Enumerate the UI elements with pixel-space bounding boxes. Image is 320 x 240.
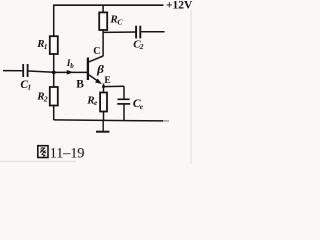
resistor RC <box>99 12 107 30</box>
wire C1 to base node <box>29 71 54 72</box>
transistor Q1 base bar <box>87 58 89 81</box>
wire input left <box>3 70 22 72</box>
resistor Re <box>100 93 107 112</box>
node base junction dot <box>52 71 56 75</box>
wire R2 bottom to ground rail <box>53 106 55 121</box>
wire output right of C2 <box>141 31 164 33</box>
svg-text:C: C <box>93 46 100 57</box>
transistor collector diagonal <box>89 56 103 62</box>
wire R1 bottom to base node <box>53 54 55 72</box>
wire collector node to C2 <box>103 31 135 33</box>
svg-text:C: C <box>117 18 123 27</box>
page edge faint line right <box>190 9 192 164</box>
svg-text:1: 1 <box>44 42 48 51</box>
svg-text:2: 2 <box>43 94 48 103</box>
svg-text:11–19: 11–19 <box>50 146 85 162</box>
arrow Ib current <box>67 70 74 75</box>
wire base to transistor <box>54 71 88 73</box>
svg-text:e: e <box>140 102 144 111</box>
wire emitter vertical <box>103 84 105 93</box>
capacitor C1 <box>22 64 24 77</box>
bottom-left faint scan smudge <box>0 160 76 162</box>
wire Ce bottom vertical <box>123 105 125 121</box>
wire R2 top branch <box>53 72 55 87</box>
wire top supply rail <box>53 4 164 6</box>
wire R1 top branch <box>53 5 55 36</box>
capacitor Ce <box>117 98 129 100</box>
capacitor C2 <box>135 26 137 39</box>
arrow emitter <box>95 79 102 85</box>
svg-text:β: β <box>96 62 105 76</box>
node emitter junction dot <box>102 85 105 88</box>
wire Re bottom vertical <box>103 112 105 121</box>
wire RC top branch <box>102 5 104 12</box>
wire Ce top vertical <box>123 86 125 99</box>
wire bottom rail fading tail <box>163 120 169 122</box>
svg-text:e: e <box>94 98 98 107</box>
wire emitter branch to Ce <box>104 85 125 87</box>
svg-text:E: E <box>104 76 110 86</box>
wire collector vertical <box>102 30 104 56</box>
wire bottom ground rail <box>54 120 163 121</box>
caption hanzi tu (figure) drawn glyph <box>38 146 48 158</box>
resistor R2 <box>50 87 58 106</box>
ground <box>102 121 104 131</box>
svg-text:+12V: +12V <box>166 0 193 12</box>
transistor emitter diagonal <box>89 75 99 82</box>
svg-text:2: 2 <box>139 42 144 51</box>
svg-text:1: 1 <box>28 83 32 92</box>
svg-text:B: B <box>76 78 84 90</box>
resistor R1 <box>50 36 58 54</box>
svg-text:b: b <box>70 62 74 70</box>
